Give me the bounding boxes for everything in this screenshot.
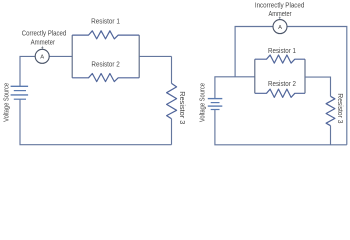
wire: box right edge to right rail (139, 55, 171, 57)
wire: parallel box left edge (71, 35, 73, 78)
resistor R3 (vertical, left circuit) (167, 83, 177, 118)
resistor R1 branch (Resistor 1, right circuit) (255, 55, 305, 63)
svg-text:Voltage Source: Voltage Source (200, 83, 207, 122)
wire: parallel box right edge (138, 35, 140, 78)
battery / voltage source (left circuit) (11, 86, 29, 99)
svg-text:Resistor 3: Resistor 3 (336, 93, 343, 123)
resistor R1 branch (Resistor 1, left circuit) (72, 31, 139, 39)
wire: right rail upper segment (171, 56, 173, 83)
wire: bottom return wire (right circuit) (215, 110, 347, 145)
battery / voltage source (right circuit) (208, 99, 223, 110)
wire: ammeter to parallel box left edge (49, 55, 72, 57)
ammeter A1 (left circuit) (35, 49, 49, 63)
svg-text:Resistor 2: Resistor 2 (91, 62, 119, 69)
wire: middle wire from battery rail to box (215, 77, 255, 99)
wire: parallel box right edge (right circuit) (304, 59, 306, 93)
resistor R2 branch (Resistor 2, right circuit) (255, 89, 305, 97)
svg-text:Correctly Placed: Correctly Placed (22, 28, 67, 37)
label arrow to ammeter (right) (279, 15, 281, 18)
wire: parallel box left edge (right circuit) (254, 59, 256, 93)
svg-text:Ammeter: Ammeter (31, 38, 56, 47)
ammeter A2 (right circuit) (273, 20, 287, 34)
svg-text:Ammeter: Ammeter (269, 9, 292, 18)
svg-text:Resistor 3: Resistor 3 (178, 91, 185, 124)
wire: box right edge to resistor 3 branch (305, 77, 331, 96)
wire: battery top rail to ammeter (left circuit) (20, 56, 35, 86)
label arrow to ammeter (left) (41, 46, 43, 47)
wire: right rail lower segment (171, 119, 173, 145)
svg-text:Resistor 2: Resistor 2 (268, 81, 296, 88)
svg-text:A: A (278, 25, 282, 31)
svg-text:Resistor 1: Resistor 1 (268, 48, 296, 55)
wire: bottom return wire (left circuit) (20, 99, 172, 145)
resistor R2 branch (Resistor 2, left circuit) (72, 74, 139, 82)
svg-text:Resistor 1: Resistor 1 (91, 19, 120, 26)
svg-text:A: A (40, 55, 44, 61)
resistor R3 (vertical, right circuit) (326, 96, 335, 125)
wire: top wire with ammeter branch (right circuit) (235, 27, 347, 145)
wire: resistor 3 to bottom (right circuit) (330, 126, 332, 145)
svg-text:Voltage Source: Voltage Source (3, 83, 10, 122)
